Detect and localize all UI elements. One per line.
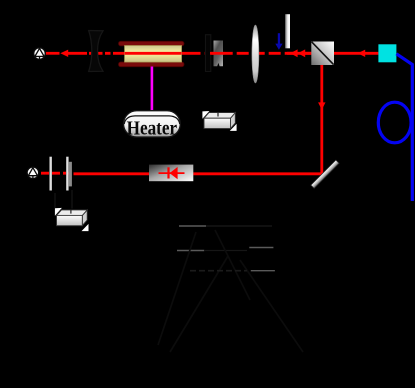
wire: magenta heater connection	[151, 67, 154, 113]
piezo plate P1	[49, 157, 52, 191]
electronics box B1 (right)	[202, 111, 236, 131]
ghost rectangle (black component outline)	[206, 35, 211, 72]
blue pump arrow	[275, 33, 282, 50]
wire: dim beam behind filter	[210, 52, 225, 55]
photodetector PD2 (bottom left)	[27, 167, 39, 179]
ghost transition arrows (lambda scheme)	[158, 230, 303, 352]
glass plate (vertical bar, top)	[285, 14, 290, 48]
beamsplitter cube	[311, 42, 334, 66]
piezo plate P2 with back plate	[66, 157, 72, 191]
wire: dashed beam plates to detector PD2	[39, 172, 71, 175]
energy level L4	[251, 270, 275, 272]
arrow: double beam arrows pointing left	[287, 49, 311, 57]
arrow: beam arrow pointing left toward detector PD1	[60, 50, 68, 57]
ghost wires from plates to box	[55, 190, 72, 209]
energy level L2	[177, 250, 247, 252]
vapor cell: top heater bar	[119, 41, 185, 46]
vapor cell: yellow cell body	[125, 46, 182, 62]
ND filter plate	[214, 41, 224, 67]
optical fiber with loop	[378, 54, 412, 201]
arrow: beam arrow pointing down	[318, 102, 325, 109]
optical isolator	[149, 165, 193, 182]
fiber coupler (cyan)	[378, 44, 396, 62]
wire: dashed beam from cell to beamsplitter cube	[205, 52, 312, 55]
energy level L1	[179, 225, 272, 227]
ghost concave lens (black)	[89, 31, 103, 72]
wire: top dashed beam from detector to cell	[46, 52, 119, 55]
wire: beam inside cell	[125, 52, 182, 55]
wire: vertical beam from cube down	[320, 65, 323, 174]
wire: beam from fiber coupler to cube	[334, 52, 378, 55]
lens (convex)	[252, 25, 259, 83]
wire: solid beam through cell	[119, 52, 201, 55]
svg-text:Heater: Heater	[127, 117, 178, 139]
wire: bottom beam from corner to isolator	[193, 172, 323, 175]
photodetector PD1 (top left)	[34, 48, 46, 60]
arrow: beam arrow pointing left near fiber coupler	[358, 50, 366, 57]
electronics box B2 (left)	[55, 208, 89, 231]
wire: beam isolator to plates	[74, 172, 150, 175]
energy level L3	[249, 247, 273, 249]
vapor cell: bottom heater bar	[119, 62, 185, 67]
heater: pill body	[124, 111, 181, 137]
folding mirror	[311, 160, 339, 188]
